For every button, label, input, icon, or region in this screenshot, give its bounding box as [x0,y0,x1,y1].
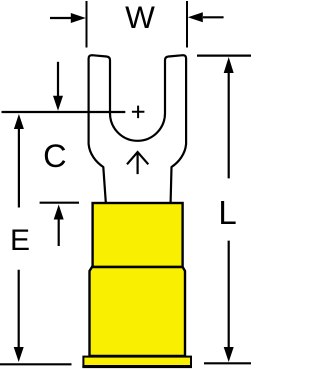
bottom reference line right [204,362,251,364]
svg-text:L: L [218,194,236,231]
W dimension left extension line [86,1,88,48]
insulation barrel lower section [90,267,186,356]
E dimension lower arrow (pointing down to bottom line) [14,270,24,362]
C dimension tick line at barrel top [40,202,79,204]
svg-text:C: C [43,138,66,174]
W dimension left arrow [50,13,86,23]
W dimension right extension line [186,1,188,48]
fork terminal metal outline [89,55,187,202]
flange bottom thick edge [82,365,192,368]
svg-text:W: W [125,0,155,35]
W dimension right arrow [188,12,224,22]
bottom reference line left [0,363,72,365]
insulation barrel upper section [93,203,183,267]
E dimension upper arrow (pointing up to leader line) [14,114,24,208]
insulation flange base [83,357,191,367]
L dimension lower arrow (pointing down to bottom line) [224,241,234,362]
stud center leader line [2,111,126,113]
C dimension lower arrow (pointing up to tick) [54,205,64,247]
stud center cross marker [132,106,145,119]
svg-text:E: E [10,224,30,257]
L dimension top extension line [197,54,251,56]
insertion direction up-arrow symbol [127,152,148,174]
C dimension upper arrow (pointing down to leader line) [53,62,63,111]
L dimension upper arrow (pointing up to top line) [224,57,234,178]
